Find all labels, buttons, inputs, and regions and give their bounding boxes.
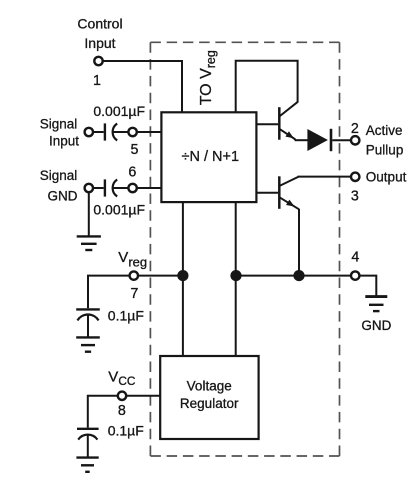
svg-text:Signal: Signal [40,168,78,183]
svg-text:Voltage: Voltage [187,379,232,394]
svg-text:1: 1 [93,73,101,89]
svg-text:5: 5 [131,142,139,158]
svg-text:Input: Input [49,133,79,148]
svg-text:0.001µF: 0.001µF [93,201,145,217]
pin 3 terminal [351,173,359,181]
capacitor C3 0.1µF [76,309,100,337]
wire pin8 to regulator [127,395,161,397]
svg-text:Input: Input [84,35,115,51]
wire divider bottom to regulator (left) [182,202,184,356]
Vreg bus wire [138,275,183,277]
wire [93,187,103,189]
signal gnd terminal [85,184,93,192]
junction C [293,270,304,281]
wire pin4 to ground [360,276,377,296]
ground (pin 7 cap) [76,337,100,351]
svg-text:4: 4 [351,249,359,265]
voltage regulator block U1 [160,356,258,439]
svg-text:6: 6 [128,165,136,181]
svg-text:Pullup: Pullup [366,142,404,157]
pin 1 terminal [94,57,102,65]
signal input terminal [85,128,93,136]
label Active Pullup [366,123,404,157]
wire diode to pin 2 [332,139,350,141]
junction B [230,270,241,281]
junction A [177,270,188,281]
wire pin1 to divider top [103,61,182,112]
pin 6 terminal [128,184,136,192]
wire junction B to pin 4 [236,275,351,277]
label Signal Input [40,117,80,149]
wire divider top to Q1 collector [236,61,298,113]
IC boundary dashed box [150,42,339,456]
wire Q2 collector to pin 3 [298,176,351,178]
label Control Input [77,15,122,51]
label Signal GND [40,168,78,204]
svg-text:3: 3 [351,189,359,205]
wire emitter to diode [295,139,308,141]
transistor Q2 [279,176,299,209]
pin 8 terminal [118,392,126,400]
wire pin5 to divider [137,131,161,133]
pin 2 terminal [351,136,359,144]
wire Q2 base [256,192,278,194]
svg-text:8: 8 [118,403,126,419]
wire signal gnd to ground [88,192,90,236]
wire Q1 base [256,123,278,125]
ground (pin 4) [365,297,387,312]
wire divider bottom to regulator (right) [235,202,237,356]
svg-text:GND: GND [361,318,391,333]
transistor Q1 [279,102,298,140]
ground (signal gnd) [77,236,101,250]
ground (pin 8 cap) [76,458,98,472]
svg-text:7: 7 [130,286,138,302]
divider block ÷N / N+1 [161,112,256,202]
svg-text:0.001µF: 0.001µF [93,103,145,119]
pin 7 terminal [130,271,138,279]
diode D1 [307,129,328,151]
svg-text:0.1µF: 0.1µF [108,423,144,439]
capacitor C1 0.001µF [105,123,128,140]
pin 5 terminal [128,128,136,136]
wire [93,131,103,133]
svg-text:Active: Active [366,123,403,138]
svg-text:Signal: Signal [40,117,78,132]
capacitor C4 0.1µF [77,429,99,457]
svg-text:2: 2 [351,121,359,137]
capacitor C2 0.001µF [105,179,128,196]
wire pin6 to divider [137,187,161,189]
wire pin8 left and down [88,396,118,428]
svg-text:÷N / N+1: ÷N / N+1 [182,149,240,165]
svg-text:0.1µF: 0.1µF [108,308,144,324]
svg-text:Regulator: Regulator [180,396,239,411]
svg-text:GND: GND [48,189,78,204]
svg-text:Output: Output [366,170,407,185]
pin 4 terminal [351,271,359,279]
wire pin7 left and down [88,276,129,309]
wire Q2 emitter down [298,209,300,276]
svg-text:Control: Control [77,15,122,31]
